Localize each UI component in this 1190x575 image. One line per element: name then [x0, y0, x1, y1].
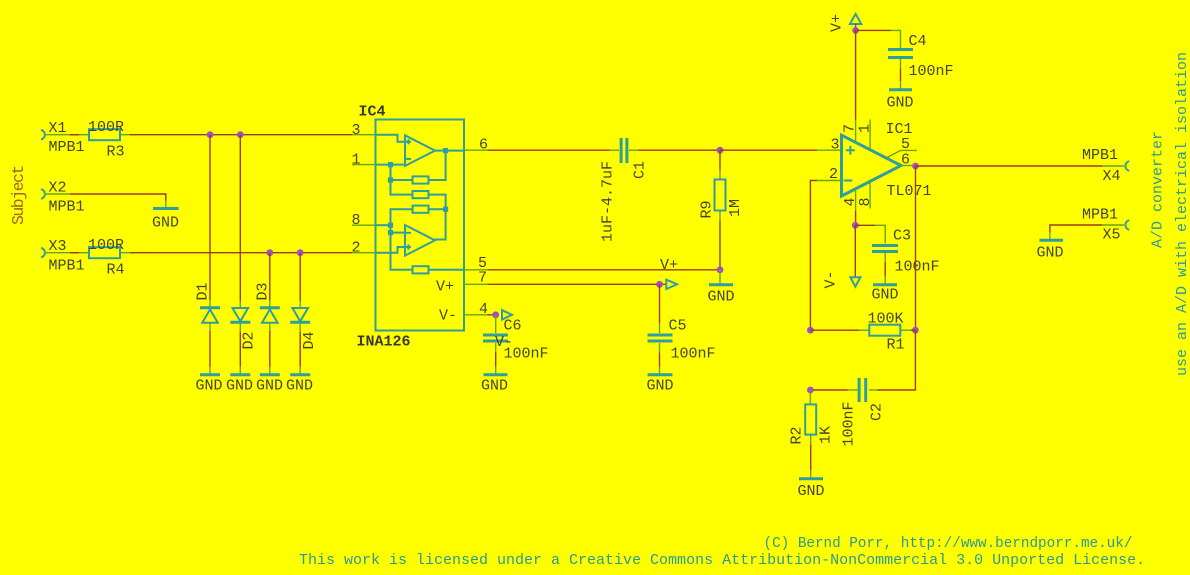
wire IC4 pin6 to C1	[488, 149, 610, 151]
svg-text:GND: GND	[256, 378, 283, 395]
wire D4 column	[299, 253, 301, 301]
wire IC4 pin4 to junction	[488, 314, 496, 316]
junction C2/R2	[807, 387, 814, 394]
junction row1/D2	[237, 131, 244, 138]
svg-text:GND: GND	[226, 378, 253, 395]
wire D3 column	[269, 253, 271, 300]
net label arrow V+	[666, 280, 677, 289]
internal resistor lower	[413, 206, 429, 213]
pin 4	[464, 314, 488, 316]
wire C2 left to junction	[810, 389, 847, 391]
ground C4	[887, 81, 914, 112]
wire D1 column	[209, 135, 211, 300]
pin 1	[352, 164, 376, 166]
wire V+ rail to C4	[856, 29, 891, 31]
pin 6 output	[901, 165, 912, 167]
svg-text:3: 3	[831, 137, 840, 154]
pin 1	[869, 120, 871, 151]
wire V+ arrow to junction	[855, 24, 857, 30]
svg-text:8: 8	[352, 212, 361, 229]
junction R9/pin5/GND	[717, 266, 724, 273]
wire node D vertical pin8 side	[391, 209, 413, 270]
internal resistor top	[413, 176, 429, 183]
ground C5	[647, 367, 674, 395]
junction R1 right	[912, 327, 919, 334]
svg-text:X1: X1	[49, 120, 67, 137]
svg-text:6: 6	[479, 137, 488, 154]
svg-text:GND: GND	[196, 378, 223, 395]
pin 5 (offset)	[886, 150, 917, 158]
wire row1 R3 to IC4 pin3	[130, 134, 352, 136]
junction pin7/C5	[656, 281, 663, 288]
wire D2 column	[239, 135, 241, 301]
svg-text:GND: GND	[481, 378, 508, 395]
svg-text:This work is licensed under a: This work is licensed under a Creative C…	[299, 552, 1145, 569]
op-amp IC4 upper amplifier	[405, 135, 435, 166]
svg-text:GND: GND	[1037, 245, 1064, 262]
wire C5 to ground	[659, 353, 661, 367]
svg-text:C2: C2	[869, 403, 886, 421]
svg-text:R1: R1	[887, 337, 905, 354]
svg-text:IC4: IC4	[359, 104, 386, 121]
svg-text:X5: X5	[1103, 227, 1121, 244]
svg-text:6: 6	[901, 152, 910, 169]
junction row3/D3	[266, 249, 273, 256]
svg-text:100K: 100K	[868, 311, 904, 328]
svg-text:1: 1	[857, 124, 874, 133]
junction V- node	[852, 222, 859, 229]
svg-text:C6: C6	[504, 318, 522, 335]
diode D3	[255, 282, 280, 331]
ground X2	[152, 201, 179, 232]
wire V+ rail down to TL071 pin7	[855, 30, 857, 119]
svg-text:GND: GND	[286, 378, 313, 395]
wire D2 to ground	[239, 332, 241, 367]
svg-text:100R: 100R	[88, 237, 124, 254]
svg-text:GND: GND	[152, 215, 179, 232]
svg-text:Subject: Subject	[9, 166, 28, 225]
svg-text:C4: C4	[909, 33, 927, 50]
svg-text:C1: C1	[632, 161, 649, 179]
svg-text:R4: R4	[107, 262, 125, 279]
internal resistor middle	[413, 191, 429, 198]
svg-text:100nF: 100nF	[504, 346, 549, 363]
svg-text:1M: 1M	[727, 199, 744, 217]
svg-text:MPB1: MPB1	[49, 199, 85, 216]
svg-text:D4: D4	[301, 331, 318, 349]
junction V+ rail	[852, 27, 859, 34]
net label arrow V- (IC4)	[502, 310, 512, 319]
wire X5 to ground	[1050, 225, 1102, 233]
pin 6	[464, 149, 488, 151]
wire R9 top	[719, 150, 721, 169]
junction TL071 output	[912, 163, 919, 170]
junction pin4/C6	[492, 311, 499, 318]
svg-text:1: 1	[352, 152, 361, 169]
wire pin2 step into + input	[376, 247, 406, 253]
resistor R9 1M	[699, 170, 745, 221]
svg-text:GND: GND	[887, 95, 914, 112]
svg-text:C3: C3	[893, 228, 911, 245]
svg-text:2: 2	[352, 240, 361, 257]
svg-text:D1: D1	[195, 282, 212, 300]
svg-text:(C) Bernd Porr, http://www.ber: (C) Bernd Porr, http://www.berndporr.me.…	[764, 536, 1133, 552]
wire node D to upper input of lower amp	[391, 232, 406, 234]
capacitor C5 100nF	[648, 318, 716, 363]
wire upper output to feedback resistor	[429, 151, 465, 180]
wire X1 to R3	[70, 134, 80, 136]
wire R2 to ground	[810, 445, 812, 470]
svg-text:8: 8	[857, 197, 874, 206]
internal junction squares	[388, 162, 393, 167]
resistor R4 100R	[79, 237, 130, 279]
pin 4	[855, 189, 857, 211]
ground D1	[196, 367, 223, 395]
connector X3	[41, 238, 85, 275]
wire pin1 node down to gain resistors	[391, 165, 413, 195]
wire C6 to ground	[495, 352, 497, 367]
diode D4	[290, 301, 318, 350]
svg-text:100nF: 100nF	[671, 346, 716, 363]
junction R1 left	[807, 327, 814, 334]
wire output feedback down	[915, 166, 917, 330]
junction row1/D1	[207, 131, 214, 138]
pin 2	[817, 180, 842, 182]
svg-text:100R: 100R	[88, 119, 124, 136]
pin 7	[855, 120, 857, 143]
capacitor C4 100nF	[888, 30, 954, 80]
wire lower resistor right to node C	[429, 208, 446, 210]
svg-text:X4: X4	[1103, 168, 1121, 185]
svg-text:3: 3	[352, 122, 361, 139]
net label arrow V+ (rail)	[850, 14, 861, 24]
svg-text:100nF: 100nF	[909, 63, 954, 80]
svg-text:V+: V+	[829, 14, 846, 32]
ground D2	[226, 367, 253, 395]
svg-text:7: 7	[478, 270, 487, 287]
wire X2 to ground	[70, 194, 166, 201]
wire X3 to R4	[70, 252, 80, 254]
pin 3	[352, 134, 376, 136]
pin 5	[464, 269, 488, 271]
pin 2	[352, 252, 376, 254]
junction C1/R9	[717, 147, 724, 154]
svg-text:TL071: TL071	[887, 183, 932, 200]
ground C6	[481, 367, 508, 395]
svg-text:MPB1: MPB1	[1082, 147, 1118, 164]
resistor R3 100R	[79, 119, 130, 161]
IC4 body box	[376, 120, 465, 331]
capacitor C2 100nF	[841, 378, 886, 447]
wire pin3 step into + input	[376, 135, 406, 142]
wire D1 to ground	[209, 331, 211, 367]
wire C4 to ground	[900, 69, 902, 82]
wire IC4 pin5 to ground junction	[488, 269, 721, 271]
wire IC4 pin7 to V+ label	[488, 283, 667, 285]
svg-text:X3: X3	[49, 238, 67, 255]
net label arrow V-	[850, 277, 860, 286]
svg-text:V+: V+	[660, 257, 678, 274]
wire C1 to junction	[639, 149, 721, 151]
wire R1 right	[911, 329, 916, 331]
wire D4 to ground	[299, 332, 301, 367]
wire C5 drop	[659, 284, 661, 323]
svg-text:V-: V-	[439, 308, 457, 325]
wire junction to TL071 pin3	[720, 149, 817, 151]
connector X4	[1082, 147, 1129, 185]
svg-text:GND: GND	[872, 287, 899, 304]
wire row3 R4 to IC4 pin2	[130, 252, 352, 254]
wire pin8 to node D	[376, 224, 391, 226]
pin 3	[817, 149, 842, 151]
op-amp IC1 TL071	[817, 120, 932, 212]
ground R2	[798, 470, 825, 500]
svg-text:V-: V-	[823, 270, 840, 288]
svg-text:D3: D3	[255, 282, 272, 300]
- input mark	[844, 180, 852, 182]
wire V- node down to arrow	[854, 225, 856, 277]
+ input mark	[846, 146, 855, 155]
svg-text:4: 4	[479, 301, 488, 318]
op-amp IC4 INA126 instrumentation amplifier	[352, 104, 489, 351]
capacitor C3 100nF	[872, 225, 940, 275]
svg-text:C5: C5	[669, 318, 687, 335]
connector X5	[1082, 207, 1129, 244]
svg-text:INA126: INA126	[357, 334, 411, 351]
wire TL071 pin4 to V- node	[855, 211, 857, 225]
pin 8	[352, 224, 376, 226]
svg-text:A/D converter: A/D converter	[1150, 131, 1167, 248]
svg-text:MPB1: MPB1	[49, 139, 85, 156]
svg-text:GND: GND	[798, 483, 825, 500]
wire middle resistor to node C	[429, 195, 446, 240]
pin 7	[464, 283, 488, 285]
ground X5	[1037, 233, 1064, 262]
svg-text:use an A/D with electrical iso: use an A/D with electrical isolation	[1174, 52, 1190, 376]
ground D4	[286, 367, 313, 395]
internal resistor bottom (to pin5)	[413, 266, 429, 273]
pin 8	[869, 181, 871, 208]
diode D1	[195, 282, 221, 331]
resistor R1 100K	[859, 311, 910, 354]
wire feedback down to C2	[878, 330, 916, 390]
wire C3 to ground	[884, 262, 886, 277]
junction row3/D4	[297, 249, 304, 256]
svg-text:1K: 1K	[818, 426, 835, 444]
svg-text:R3: R3	[107, 144, 125, 161]
wire feedback from pin2	[810, 181, 817, 331]
wire V- node to C3	[855, 224, 875, 226]
svg-text:GND: GND	[647, 378, 674, 395]
svg-text:MPB1: MPB1	[49, 258, 85, 275]
svg-text:100nF: 100nF	[895, 259, 940, 276]
connector X2	[41, 180, 85, 216]
svg-text:X2: X2	[49, 180, 67, 197]
capacitor C6 100nF	[483, 315, 549, 363]
svg-text:2: 2	[829, 166, 838, 183]
op-amp IC4 lower amplifier	[405, 225, 435, 256]
ground C3	[872, 277, 899, 304]
svg-text:1uF-4.7uF: 1uF-4.7uF	[600, 161, 617, 242]
svg-text:GND: GND	[708, 289, 735, 306]
wire TL071 output to X4	[916, 165, 1103, 167]
capacitor C1 1uF-4.7uF	[600, 138, 649, 242]
ground D3	[256, 367, 283, 395]
ground R9/pin5	[708, 270, 735, 306]
svg-text:R2: R2	[789, 426, 806, 444]
diode D2	[230, 301, 257, 350]
connector X1	[41, 120, 85, 156]
svg-text:100nF: 100nF	[841, 401, 858, 446]
wire pin1 node to - input	[376, 164, 406, 166]
wire R1 left	[810, 329, 859, 331]
wire R9 bottom to V+ node	[719, 221, 721, 270]
resistor R2 1K	[789, 390, 835, 445]
svg-text:MPB1: MPB1	[1082, 207, 1118, 224]
wire D3 to ground	[269, 331, 271, 367]
svg-text:D2: D2	[241, 331, 258, 349]
svg-text:R9: R9	[699, 200, 716, 218]
svg-text:5: 5	[901, 136, 910, 153]
svg-text:V+: V+	[436, 279, 454, 296]
